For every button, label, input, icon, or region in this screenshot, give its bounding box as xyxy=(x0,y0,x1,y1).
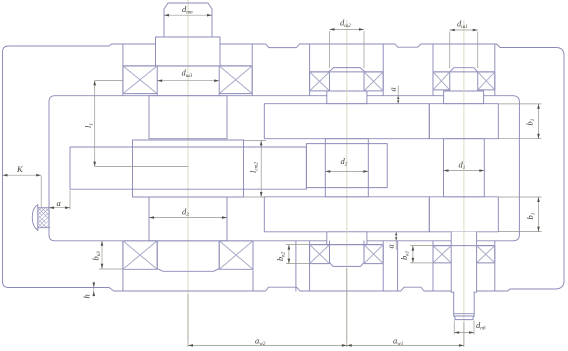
arrows b1 upper xyxy=(537,104,540,109)
bearing S1 top left X xyxy=(433,72,450,90)
bearing boss bore edge S2 top right xyxy=(382,44,384,96)
bearing S3 bottom left X xyxy=(123,241,157,269)
bottom bearing boss wall S2 outer right xyxy=(397,241,399,291)
aw extension slow axis xyxy=(187,294,189,347)
dim bк2 line and extensions xyxy=(288,245,290,264)
dim dш3 line xyxy=(157,80,219,82)
dim d3 line xyxy=(149,217,227,219)
bottom bearing bore edge S2 left xyxy=(309,241,311,291)
dim dш1 line and extensions xyxy=(450,29,478,31)
bearing boss bore edge S1 top right xyxy=(494,44,496,96)
centerline intermediate shaft axis x=346.8 xyxy=(346,20,348,341)
housing inner top line y=95.7 xyxy=(55,95,513,97)
intermediate shaft journal dш2 xyxy=(330,90,365,92)
bearing S3 top left box xyxy=(123,66,157,94)
aw extension intermediate axis xyxy=(346,268,348,347)
bearing boss bore edge S2 top left xyxy=(309,44,311,96)
bearing S1 top right box xyxy=(478,72,495,90)
bearing S1 bottom left box xyxy=(433,246,451,263)
arrows a bottom-right outside xyxy=(395,232,397,235)
arrows K xyxy=(3,174,8,177)
dim d1 line xyxy=(444,170,485,172)
bearing S3 top right box xyxy=(219,66,252,94)
dim b1 upper extensions and line xyxy=(498,103,541,105)
bottom bearing boss wall S1 right xyxy=(494,241,496,291)
slow shaft journal between top bearings xyxy=(157,94,219,96)
fast shaft d1 section xyxy=(444,139,485,197)
intermediate shaft bottom journal and end cap xyxy=(330,241,365,267)
bearing boss bore edge S3 top left xyxy=(122,44,124,96)
arrows bк2 xyxy=(288,245,291,250)
bearing S1 top right X xyxy=(478,72,495,90)
bearing S1 bottom right X xyxy=(477,246,495,263)
bearing S3 bottom left box xyxy=(123,241,157,269)
dim K line and extension xyxy=(3,174,42,176)
arrows dш3 xyxy=(157,79,162,82)
oil drain plug outline xyxy=(38,205,50,231)
bearing S2 bottom left box xyxy=(310,245,330,264)
bottom bearing boss wall S1 left xyxy=(432,241,434,291)
housing inner bottom line y=240.8 xyxy=(55,240,513,242)
intermediate shaft shoulder block bottom xyxy=(327,232,367,245)
fast shaft top bearing race line xyxy=(433,71,495,73)
wheel W1a on intermediate shaft xyxy=(264,104,429,139)
fast shaft end dпб tip xyxy=(454,316,475,320)
svg-text:h: h xyxy=(82,294,92,298)
housing outer contour left wall and top cover xyxy=(3,44,156,281)
bearing S2 top left X xyxy=(310,72,330,91)
fast shaft exit through bottom boss xyxy=(451,263,476,292)
pinion P1a on fast shaft xyxy=(429,104,498,139)
dim dпт line xyxy=(164,14,212,16)
fast shaft neck below P1b xyxy=(451,232,476,246)
intermediate shaft top bearing cap trapezoid xyxy=(329,68,365,72)
centerline fast shaft axis x=463.9 xyxy=(463,20,465,345)
arrows aw2 xyxy=(188,344,193,347)
wheel W2 rim xyxy=(70,147,306,189)
arrows bк3 xyxy=(101,241,104,246)
slow shaft lower d3 section xyxy=(149,197,227,241)
arrows a top-right outside xyxy=(397,96,399,99)
wheel W1b on intermediate shaft xyxy=(264,197,429,232)
bearing S2 bottom right box xyxy=(364,245,383,264)
fast shaft spacer block xyxy=(444,91,484,104)
arrows bк1 xyxy=(412,246,415,251)
bearing boss bore edge S3 top right xyxy=(251,44,253,96)
dim a bottom-right line xyxy=(395,232,397,250)
arrows h outside xyxy=(93,283,96,288)
dim bк3 line and extension xyxy=(101,241,103,269)
intermediate top bearing race line xyxy=(310,71,384,73)
bearing S3 top right X xyxy=(219,66,252,94)
arrows aw1 xyxy=(347,344,352,347)
bottom bearing boss wall S2 outer left xyxy=(295,241,297,291)
bearing S2 bottom race line xyxy=(310,244,384,246)
oil drain plug boss hatch xyxy=(38,208,50,228)
arrows b1 lower xyxy=(537,197,540,202)
dim d2 line xyxy=(325,170,368,172)
bearing S2 bottom left X xyxy=(310,245,330,264)
housing inner left wall xyxy=(49,96,55,241)
bearing S1 bottom left X xyxy=(433,246,451,263)
dim a top-right line xyxy=(397,86,399,104)
housing bottom with feet and relief notches xyxy=(477,281,564,291)
slow shaft upper d3 section xyxy=(149,96,227,139)
arrows d1 xyxy=(444,169,449,172)
bearing S2 top left box xyxy=(310,72,330,91)
arrows dш2 xyxy=(330,28,335,31)
housing top cover right of collar with relief notches xyxy=(220,44,564,281)
arrows l1 xyxy=(93,80,96,85)
bottom bearing bore edge S2 right xyxy=(382,241,384,291)
dim bк1 line and extensions xyxy=(412,246,414,263)
bearing boss bore edge S1 top left xyxy=(432,44,434,96)
arrows a left xyxy=(49,206,54,209)
arrows d3 xyxy=(149,216,154,219)
bottom bearing boss wall S3 left xyxy=(122,241,124,291)
bearing S1 bottom right box xyxy=(477,246,495,263)
slow shaft end dпт xyxy=(164,3,212,37)
aw extension fast axis xyxy=(463,322,465,347)
bearing S2 top right X xyxy=(364,72,383,91)
dim l1 line xyxy=(94,80,96,166)
dim aw line xyxy=(188,344,464,346)
fast shaft top bearing cap trapezoid xyxy=(450,68,478,72)
wheel W2 hub xyxy=(133,140,244,197)
dim lст line and extensions xyxy=(244,140,267,142)
oil drain plug head arc xyxy=(32,205,38,230)
dim h line xyxy=(93,282,95,297)
dim a left line and extension xyxy=(49,207,70,209)
dim dш2 line and extensions xyxy=(330,28,365,30)
bearing S2 bottom right X xyxy=(364,245,383,264)
arrows lст xyxy=(260,141,263,146)
dim b1 lower extensions and line xyxy=(498,196,541,198)
slow shaft collar xyxy=(156,37,221,66)
bearing S1 bottom race line xyxy=(433,245,495,247)
bearing S3 top left X xyxy=(123,66,157,94)
centerline slow shaft axis x=188 xyxy=(187,0,189,341)
fast shaft seal section xyxy=(454,292,475,314)
slow shaft bottom journal and end cap xyxy=(157,241,219,271)
bearing S2 top right box xyxy=(364,72,383,91)
svg-text:a: a xyxy=(388,87,398,91)
arrows d2 xyxy=(325,170,330,173)
intermediate shaft d2 section xyxy=(325,139,368,197)
pinion P1b on fast shaft xyxy=(429,197,498,232)
housing inner right wall xyxy=(513,96,520,241)
intermediate shaft shoulder block top xyxy=(327,91,367,104)
fast shaft chamfer ring xyxy=(454,314,475,316)
bearing S3 bottom right X xyxy=(219,241,253,269)
bottom bearing boss wall S3 right xyxy=(252,241,254,291)
l1 reference line to axis xyxy=(95,166,189,168)
svg-text:a: a xyxy=(386,244,396,248)
bearing S3 bottom right box xyxy=(219,241,253,269)
arrows dпб xyxy=(454,331,459,334)
svg-text:a: a xyxy=(57,198,61,208)
arrows dпт xyxy=(164,14,169,17)
pinion P2 on intermediate shaft xyxy=(306,144,387,188)
slow shaft top bearing outer race line xyxy=(123,65,252,67)
dim dпб line and extensions xyxy=(453,321,455,335)
fast shaft journal dш1 xyxy=(450,90,478,91)
bearing S1 top left box xyxy=(433,72,450,90)
arrows dш1 xyxy=(450,29,455,32)
